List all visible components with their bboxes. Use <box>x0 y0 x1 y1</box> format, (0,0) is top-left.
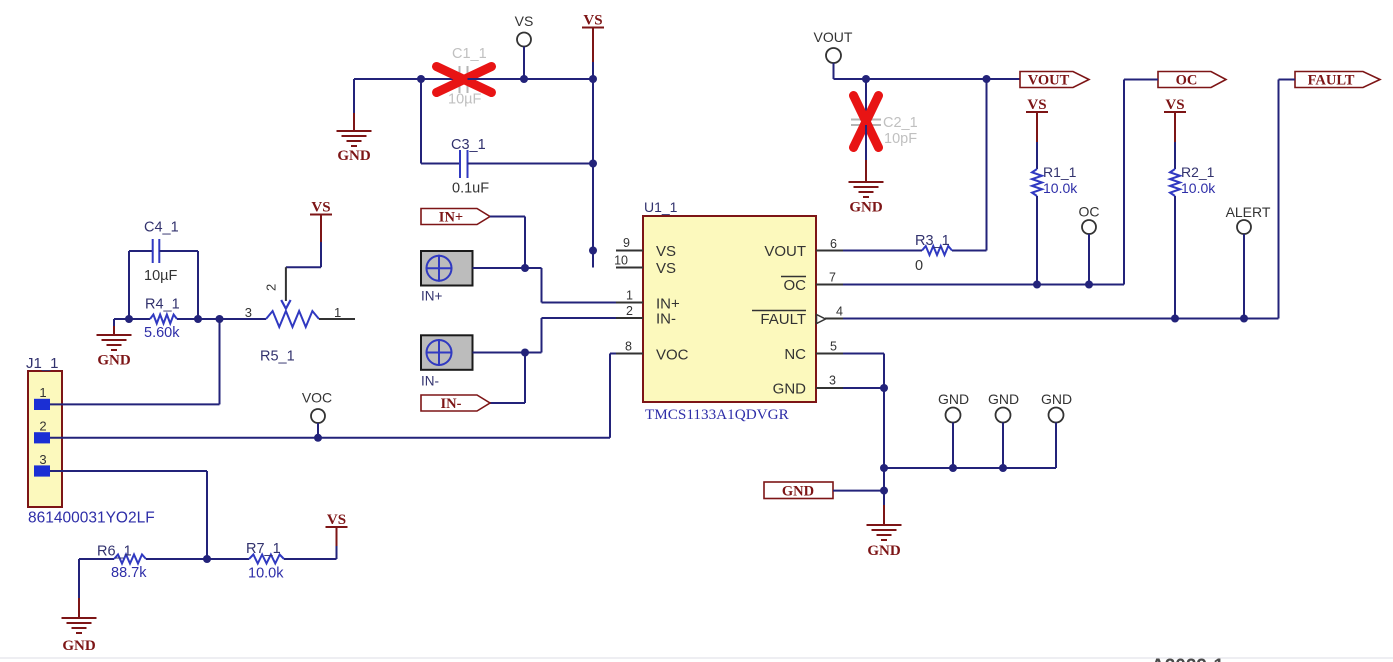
svg-text:VOUT: VOUT <box>764 243 806 260</box>
svg-text:R5_1: R5_1 <box>260 349 295 365</box>
svg-text:NC: NC <box>784 346 806 363</box>
pin GND circle 1 <box>946 408 961 423</box>
wire R3 left lead <box>843 250 922 252</box>
svg-text:3: 3 <box>39 452 46 467</box>
svg-text:861400031YO2LF: 861400031YO2LF <box>28 510 155 527</box>
node pin9 junction <box>589 247 597 255</box>
svg-text:R6_1: R6_1 <box>97 544 132 560</box>
svg-text:7: 7 <box>829 271 836 285</box>
pin 3 GND <box>816 387 843 389</box>
capacitor C2_1 (DNP) plates <box>851 119 881 121</box>
svg-text:2: 2 <box>626 304 633 318</box>
DNP red X over C2 <box>854 96 879 148</box>
wire R4 rail left <box>114 318 150 320</box>
pin GND circle 3 <box>1049 408 1064 423</box>
svg-text:GND: GND <box>988 391 1019 407</box>
wire OC riser <box>1124 79 1158 81</box>
ground GND (C4) <box>113 319 115 326</box>
svg-text:C2_1: C2_1 <box>883 115 918 131</box>
svg-text:VS: VS <box>515 13 534 29</box>
pin 1 (J1) <box>34 399 50 410</box>
svg-text:IN-: IN- <box>421 374 439 389</box>
power port VS (R7) <box>336 527 338 546</box>
svg-text:IN-: IN- <box>656 311 676 328</box>
svg-text:R1_1: R1_1 <box>1043 164 1077 180</box>
wire C1 left lead <box>421 78 459 80</box>
svg-text:1: 1 <box>39 385 46 400</box>
svg-text:GND: GND <box>773 381 807 398</box>
wire ALERT stem <box>1243 234 1245 319</box>
pin 9 VS <box>616 250 643 252</box>
svg-text:VS: VS <box>327 512 346 528</box>
svg-text:0: 0 <box>915 258 923 274</box>
svg-text:R7_1: R7_1 <box>246 541 281 557</box>
node IN- junction <box>521 349 529 357</box>
svg-text:2: 2 <box>264 284 279 291</box>
wire GND to C1 left <box>354 78 421 80</box>
svg-text:IN+: IN+ <box>421 289 443 304</box>
svg-text:6: 6 <box>830 237 837 251</box>
wire J1 pin3 <box>50 470 207 472</box>
netflag VOUT <box>1020 72 1089 88</box>
svg-text:VS: VS <box>311 200 330 216</box>
svg-text:VOUT: VOUT <box>1028 73 1070 89</box>
svg-text:1: 1 <box>626 289 633 303</box>
wire VOC to pin8 <box>609 354 611 438</box>
svg-text:4: 4 <box>836 305 843 319</box>
netflag IN+ <box>421 209 490 225</box>
wire VOUT rail <box>834 78 1021 80</box>
svg-text:GND: GND <box>97 353 131 369</box>
wire R5 wiper <box>320 242 322 267</box>
svg-text:9: 9 <box>623 236 630 250</box>
DNP red X over C1 <box>437 67 492 93</box>
pin 4 FAULT <box>825 318 843 320</box>
svg-text:VS: VS <box>583 13 602 29</box>
wire FAULT net <box>843 318 1279 320</box>
wire R2 bottom <box>1174 196 1176 319</box>
svg-text:OC: OC <box>784 277 807 294</box>
bottom edge line <box>0 657 1393 659</box>
svg-text:IN+: IN+ <box>439 210 463 226</box>
netflag IN- <box>421 395 490 411</box>
wire VS circle stem <box>523 47 525 80</box>
wire C2 bottom lead <box>865 125 867 160</box>
node VOUT junctions <box>862 75 870 83</box>
svg-text:GND: GND <box>938 391 969 407</box>
svg-text:OC: OC <box>1176 73 1198 89</box>
svg-text:2: 2 <box>39 419 46 434</box>
node OC junctions <box>1033 281 1041 289</box>
node R4 junctions <box>125 315 133 323</box>
resistor R4_1 <box>150 315 177 324</box>
ground GND (C2) <box>849 181 884 183</box>
svg-text:GND: GND <box>849 200 883 216</box>
wire VS port stem <box>592 62 594 79</box>
svg-text:3: 3 <box>245 305 252 320</box>
svg-text:10: 10 <box>614 254 628 268</box>
connector J1_1 body <box>28 371 62 507</box>
svg-text:10.0k: 10.0k <box>248 566 284 582</box>
wire OC circle stem <box>1088 234 1090 285</box>
wire J1 pin2 VOC rail <box>50 437 610 439</box>
svg-text:VS: VS <box>656 260 676 277</box>
node FAULT junctions <box>1171 315 1179 323</box>
node IN+ junction <box>521 264 529 272</box>
svg-text:VS: VS <box>1165 97 1184 113</box>
testpoint IN+ <box>421 251 473 286</box>
capacitor C4_1 loop right <box>159 250 198 252</box>
svg-text:C3_1: C3_1 <box>451 137 486 153</box>
wire GND flag <box>833 490 884 492</box>
capacitor C1_1 (DNP) plates <box>459 66 461 93</box>
wire R5 right stub <box>319 318 355 320</box>
wire R1 bottom <box>1036 196 1038 285</box>
wire VOC stem <box>317 423 319 438</box>
wire J1 pin1 to R4 rail <box>50 403 220 405</box>
svg-text:GND: GND <box>1041 391 1072 407</box>
ground GND (top-left) <box>353 79 355 113</box>
svg-text:IN-: IN- <box>441 396 462 412</box>
resistor R5_1 potentiometer <box>266 311 319 327</box>
resistor R2_1 <box>1170 169 1180 196</box>
resistor R6_1 <box>114 555 146 564</box>
wire C2 top lead <box>865 79 867 119</box>
wire R3 right lead <box>952 250 987 252</box>
svg-text:C1_1: C1_1 <box>452 46 487 62</box>
wire IN- tp to pin2 <box>473 352 542 354</box>
netflag OC <box>1158 72 1226 88</box>
capacitor C4_1 plates <box>152 239 154 263</box>
svg-text:10.0k: 10.0k <box>1043 180 1078 196</box>
svg-text:3: 3 <box>829 374 836 388</box>
svg-text:VOUT: VOUT <box>814 29 853 45</box>
pin VOC circle <box>311 409 325 423</box>
svg-text:1: 1 <box>334 305 341 320</box>
wire pin3 GND <box>843 387 884 389</box>
wire IN+ flag to node <box>490 216 525 218</box>
node pin3 junction <box>880 384 888 392</box>
pin OC circle <box>1082 220 1096 234</box>
pin 10 VS <box>616 267 643 269</box>
wire GND rail <box>884 467 1056 469</box>
svg-text:C4_1: C4_1 <box>144 220 179 236</box>
svg-text:FAULT: FAULT <box>1308 73 1355 89</box>
wire IN- to flag <box>524 353 526 404</box>
node GND junction <box>880 487 888 495</box>
svg-text:10.0k: 10.0k <box>1181 180 1216 196</box>
svg-text:8: 8 <box>625 340 632 354</box>
wire VS rail vertical <box>592 79 594 268</box>
pin 7 OC <box>816 284 843 286</box>
svg-text:10pF: 10pF <box>884 131 917 147</box>
node VS junctions top <box>417 75 425 83</box>
svg-text:A2029-1: A2029-1 <box>1151 656 1224 662</box>
svg-text:GND: GND <box>337 148 371 164</box>
wire pin5 NC <box>843 353 884 355</box>
svg-text:TMCS1133A1QDVGR: TMCS1133A1QDVGR <box>645 406 790 423</box>
wire R3 vertical <box>986 79 988 251</box>
node VOC junction <box>314 434 322 442</box>
svg-text:ALERT: ALERT <box>1226 204 1271 220</box>
wire R6 left <box>79 558 114 560</box>
ground GND (R6) <box>78 559 80 598</box>
svg-text:5.60k: 5.60k <box>144 325 180 341</box>
svg-text:FAULT: FAULT <box>760 311 806 328</box>
testpoint IN- <box>421 335 473 370</box>
svg-text:GND: GND <box>62 638 96 654</box>
svg-text:5: 5 <box>830 340 837 354</box>
svg-text:GND: GND <box>782 484 814 500</box>
svg-text:10µF: 10µF <box>144 268 177 284</box>
svg-text:VOC: VOC <box>656 347 689 364</box>
wire IN+ to pin1 <box>525 267 542 269</box>
op-amp U1_1 body <box>643 216 816 402</box>
wire VS to R2 <box>1174 142 1176 169</box>
svg-text:VOC: VOC <box>302 390 332 406</box>
netflag FAULT <box>1295 72 1380 88</box>
wire C1 right to VS rail <box>468 78 594 80</box>
resistor R7_1 <box>249 555 284 564</box>
pin 2 IN- <box>616 317 643 319</box>
netflag GND <box>764 482 833 499</box>
wire R6 to R7 <box>146 558 249 560</box>
resistor R3_1 <box>922 246 952 255</box>
svg-text:R2_1: R2_1 <box>1181 164 1215 180</box>
pin ALERT circle <box>1237 220 1251 234</box>
node GND rail junctions <box>880 464 888 472</box>
pin 2 (J1) <box>34 432 50 443</box>
wire VOUT stem <box>833 63 835 79</box>
wire C3 right lead <box>468 163 594 165</box>
pin GND circle 2 <box>996 408 1011 423</box>
svg-text:GND: GND <box>867 543 901 559</box>
svg-text:OC: OC <box>1079 204 1100 220</box>
node C3-VS junction <box>589 160 597 168</box>
svg-text:J1_1: J1_1 <box>26 355 59 372</box>
node R6-R7 junction <box>203 555 211 563</box>
svg-text:U1_1: U1_1 <box>644 199 678 215</box>
wire OC net <box>843 284 1124 286</box>
ground GND (main) <box>883 505 885 525</box>
svg-text:VS: VS <box>656 243 676 260</box>
pin 3 (J1) <box>34 465 50 476</box>
svg-text:VS: VS <box>1027 97 1046 113</box>
svg-text:10µF: 10µF <box>448 92 481 108</box>
capacitor C3_1 plates <box>459 150 461 178</box>
pin VS circle <box>517 33 531 47</box>
wire R4 to R5 <box>177 318 266 320</box>
wire FAULT riser <box>1279 79 1296 81</box>
pin 6 VOUT <box>816 250 843 252</box>
svg-text:88.7k: 88.7k <box>111 565 147 581</box>
svg-text:R4_1: R4_1 <box>145 297 180 313</box>
wire R7 right <box>284 558 337 560</box>
svg-text:0.1uF: 0.1uF <box>452 181 489 197</box>
R5 wiper arrowhead <box>281 300 290 309</box>
pin 1 IN+ <box>616 302 643 304</box>
capacitor C4_1 loop left <box>128 251 130 319</box>
resistor R1_1 <box>1032 169 1042 196</box>
wire IN+ tp to node <box>473 267 526 269</box>
svg-text:R3_1: R3_1 <box>915 233 950 249</box>
pin 8 VOC <box>616 353 643 355</box>
wire VS to R1 <box>1036 142 1038 169</box>
wire C3 left lead <box>421 163 460 165</box>
wire left vertical to C3 <box>420 79 422 164</box>
pin 5 NC <box>816 353 843 355</box>
pin VOUT circle <box>826 48 841 63</box>
